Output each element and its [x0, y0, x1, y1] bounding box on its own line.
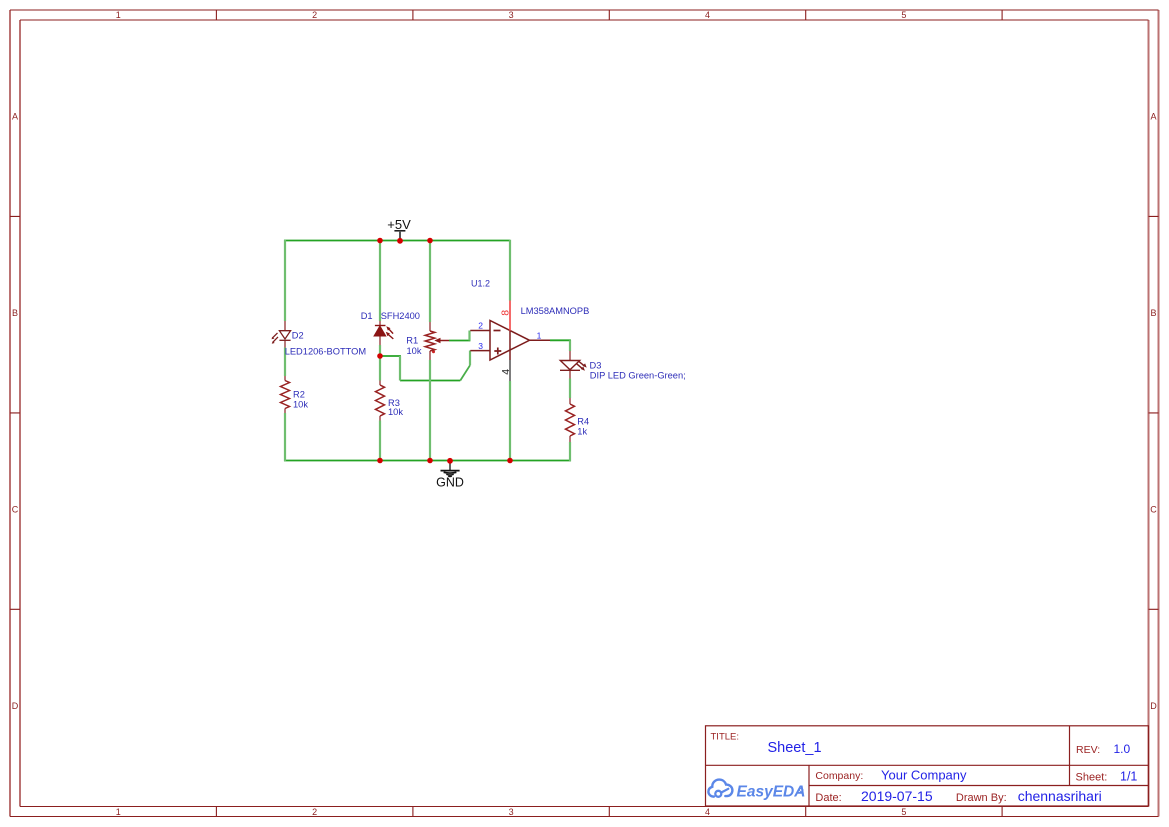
- svg-text:2: 2: [478, 320, 483, 330]
- svg-text:4: 4: [705, 807, 710, 817]
- svg-text:1k: 1k: [577, 426, 587, 436]
- svg-text:R2: R2: [293, 390, 305, 400]
- svg-text:2019-07-15: 2019-07-15: [861, 788, 933, 804]
- svg-text:Sheet_1: Sheet_1: [768, 740, 822, 756]
- svg-text:3: 3: [509, 10, 514, 20]
- svg-text:R4: R4: [577, 416, 589, 426]
- svg-text:REV:: REV:: [1076, 744, 1100, 756]
- svg-text:5: 5: [901, 807, 906, 817]
- svg-text:10k: 10k: [293, 400, 308, 410]
- svg-text:B: B: [12, 308, 18, 318]
- svg-text:3: 3: [509, 807, 514, 817]
- svg-text:B: B: [1150, 308, 1156, 318]
- svg-text:Your Company: Your Company: [881, 768, 967, 783]
- svg-text:LM358AMNOPB: LM358AMNOPB: [521, 306, 590, 316]
- svg-text:LED1206-BOTTOM: LED1206-BOTTOM: [285, 347, 366, 357]
- svg-text:C: C: [12, 504, 19, 514]
- svg-text:R1: R1: [406, 335, 418, 345]
- svg-text:2: 2: [312, 807, 317, 817]
- svg-text:D2: D2: [292, 330, 304, 340]
- svg-text:4: 4: [705, 10, 710, 20]
- svg-text:Sheet:: Sheet:: [1076, 772, 1108, 784]
- svg-text:GND: GND: [436, 475, 464, 489]
- svg-text:1: 1: [537, 330, 542, 340]
- svg-text:+5V: +5V: [387, 217, 411, 232]
- svg-text:10k: 10k: [388, 407, 403, 417]
- svg-text:1/1: 1/1: [1120, 770, 1137, 784]
- svg-text:SFH2400: SFH2400: [381, 311, 420, 321]
- svg-text:D: D: [12, 701, 19, 711]
- svg-text:3: 3: [478, 341, 483, 351]
- svg-text:1: 1: [116, 807, 121, 817]
- svg-text:TITLE:: TITLE:: [711, 731, 740, 742]
- svg-text:D: D: [1150, 701, 1157, 711]
- svg-text:EasyEDA: EasyEDA: [737, 783, 806, 800]
- svg-text:8: 8: [499, 310, 511, 316]
- svg-text:A: A: [1150, 112, 1156, 122]
- svg-text:5: 5: [901, 10, 906, 20]
- svg-text:chennasrihari: chennasrihari: [1018, 788, 1102, 804]
- svg-text:Date:: Date:: [815, 792, 841, 804]
- svg-text:2: 2: [312, 10, 317, 20]
- svg-text:DIP LED Green-Green;: DIP LED Green-Green;: [590, 370, 686, 380]
- svg-text:A: A: [12, 112, 18, 122]
- svg-text:Company:: Company:: [815, 770, 863, 782]
- svg-text:U1.2: U1.2: [471, 279, 490, 289]
- svg-text:Drawn By:: Drawn By:: [956, 792, 1007, 804]
- svg-text:10k: 10k: [407, 346, 422, 356]
- svg-text:1: 1: [116, 10, 121, 20]
- svg-text:D3: D3: [590, 361, 602, 371]
- svg-text:4: 4: [500, 369, 512, 375]
- svg-text:1.0: 1.0: [1114, 742, 1131, 756]
- svg-text:D1: D1: [361, 311, 373, 321]
- svg-text:C: C: [1150, 504, 1157, 514]
